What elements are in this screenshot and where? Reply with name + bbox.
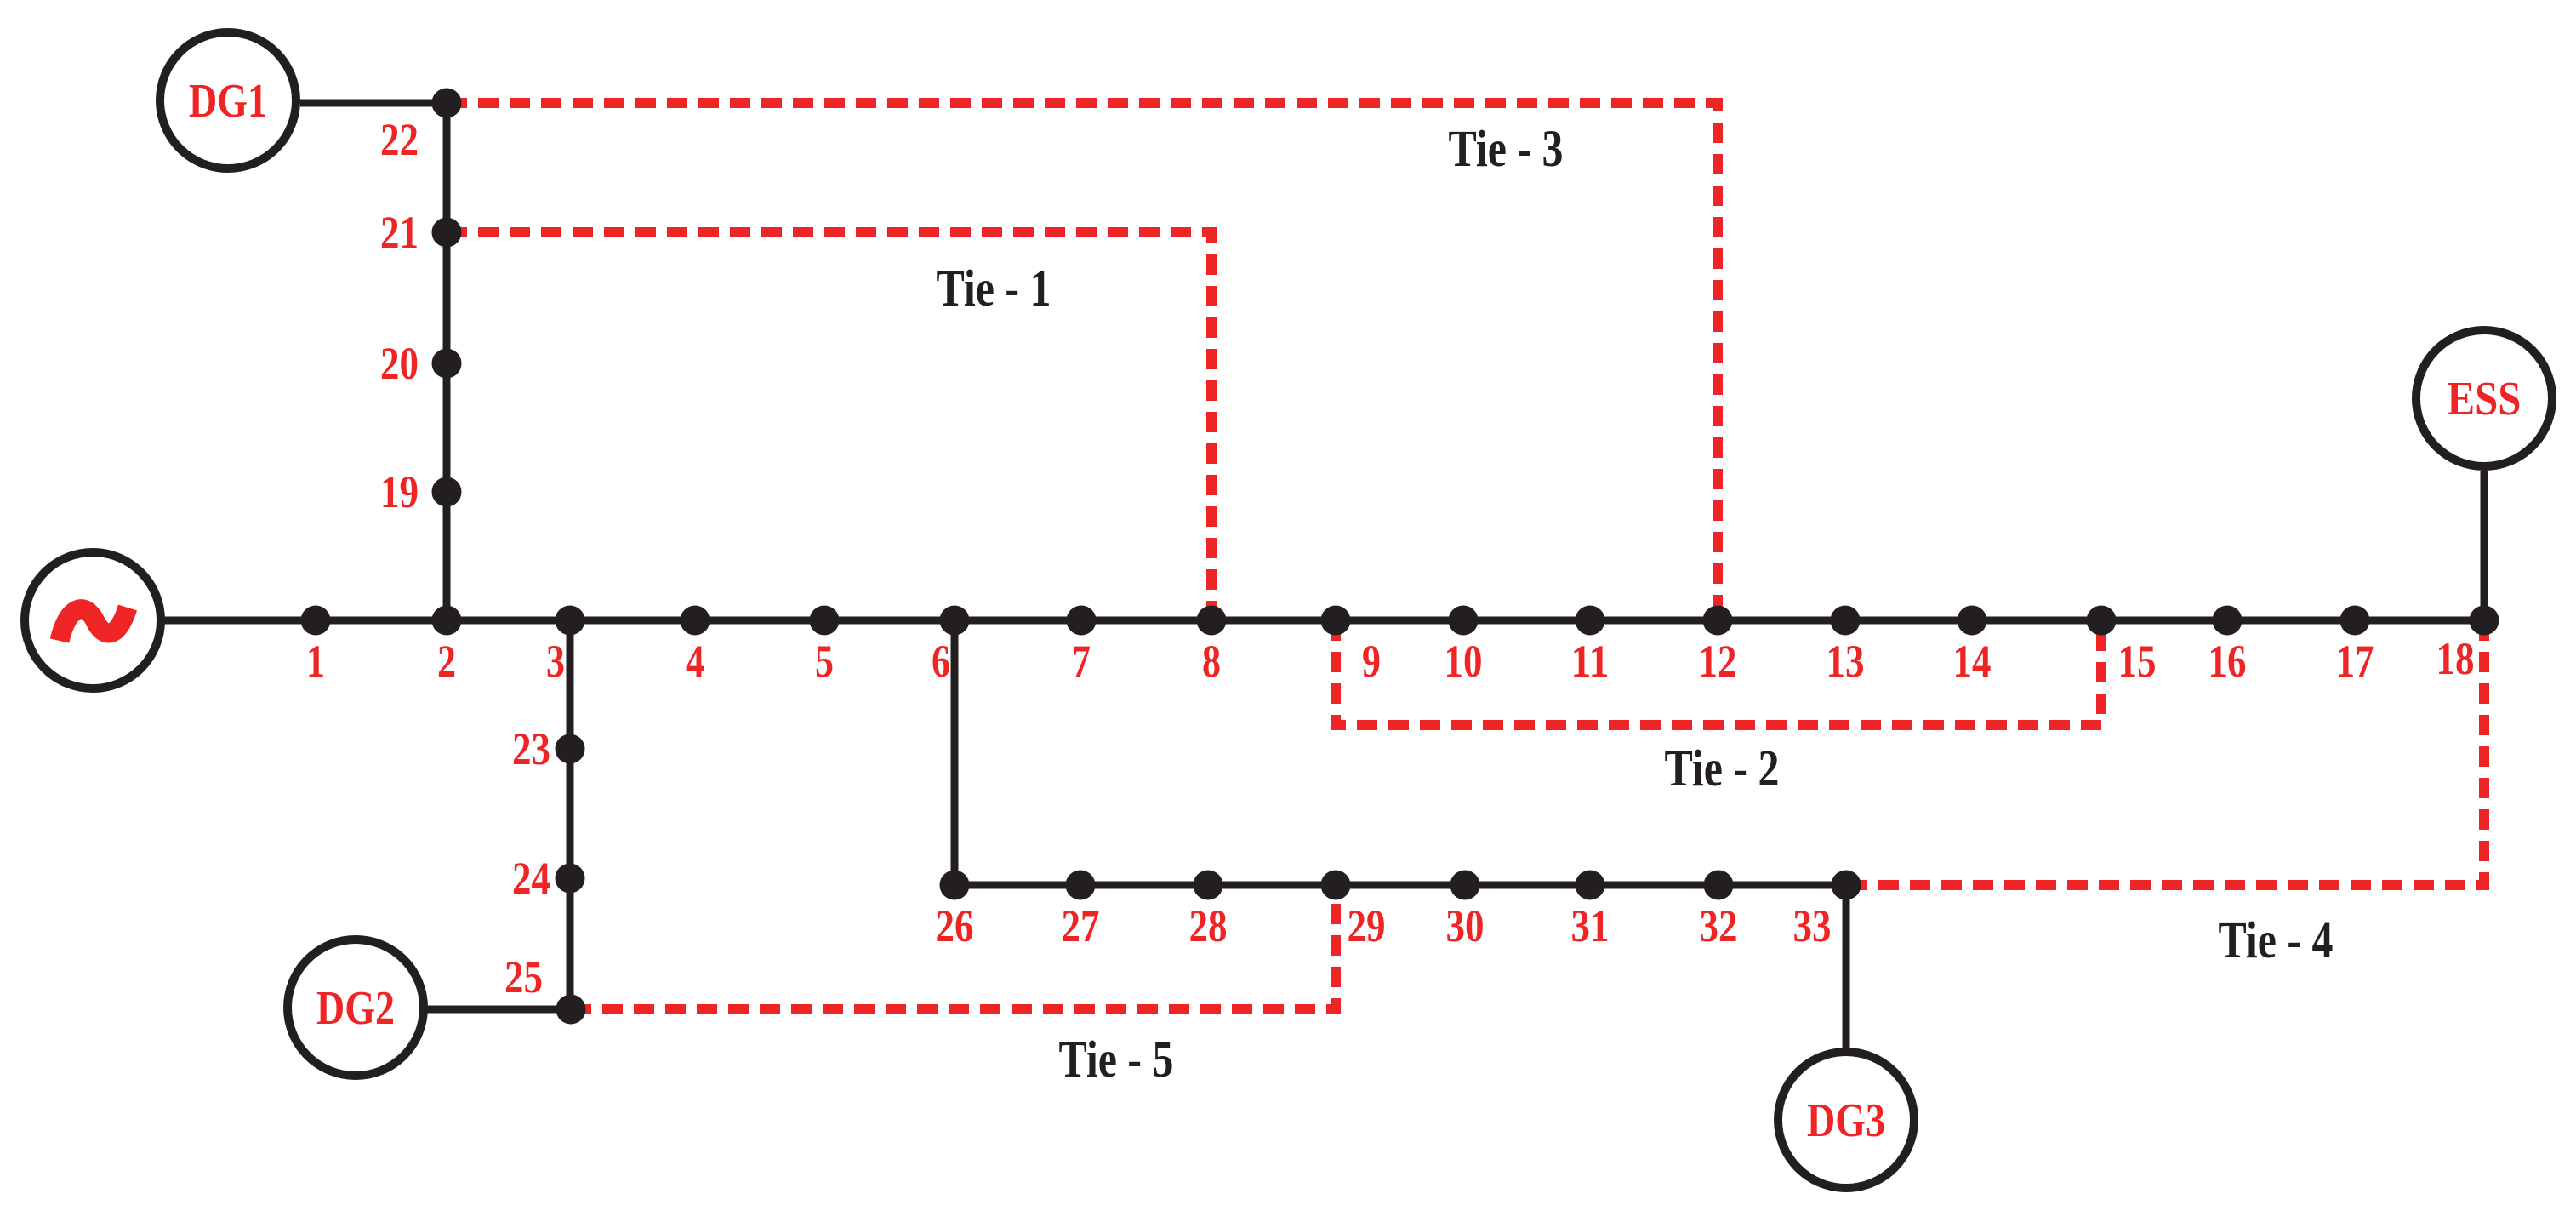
- svg-text:16: 16: [2208, 636, 2247, 687]
- svg-text:Tie - 1: Tie - 1: [937, 260, 1051, 317]
- energy storage ESS: [2416, 330, 2552, 466]
- svg-text:26: 26: [936, 900, 974, 951]
- wire lateral bus nodes 26-33: [955, 882, 1846, 889]
- svg-text:18: 18: [2436, 633, 2475, 684]
- bus node 18: [2470, 606, 2499, 636]
- bus node 8: [1197, 606, 1227, 636]
- bus node 6: [940, 606, 970, 636]
- svg-text:30: 30: [1446, 900, 1485, 951]
- bus node 27: [1066, 871, 1096, 900]
- bus node 23: [556, 734, 585, 764]
- svg-text:17: 17: [2336, 636, 2374, 687]
- tie line Tie-1 (node 21 to node 8): [447, 232, 1211, 620]
- bus node 26: [940, 871, 970, 900]
- svg-text:14: 14: [1953, 636, 1992, 687]
- svg-text:20: 20: [380, 338, 419, 389]
- svg-text:24: 24: [512, 853, 550, 904]
- bus node 5: [810, 606, 840, 636]
- wire node 33 to DG3: [1843, 885, 1850, 1048]
- wire branch node 6 to node 26: [951, 620, 959, 885]
- bus node 24: [556, 864, 585, 894]
- svg-text:Tie - 4: Tie - 4: [2219, 912, 2334, 969]
- svg-text:33: 33: [1793, 900, 1832, 951]
- tie line Tie-4 (node 18 to node 33): [1846, 620, 2484, 885]
- svg-text:11: 11: [1571, 636, 1610, 687]
- svg-text:2: 2: [437, 636, 456, 687]
- svg-text:1: 1: [306, 636, 325, 687]
- svg-text:13: 13: [1827, 636, 1865, 687]
- bus node 15: [2087, 606, 2117, 636]
- wire branch node 2 to node 22: [443, 103, 451, 620]
- tie line Tie-3 (node 22 to node 12): [447, 103, 1718, 620]
- svg-text:ESS: ESS: [2448, 373, 2522, 425]
- tie line Tie-5 (node 25 to node 29): [571, 885, 1336, 1009]
- svg-text:Tie - 5: Tie - 5: [1059, 1031, 1174, 1088]
- wire node 18 to ESS: [2481, 471, 2488, 620]
- bus node 28: [1194, 871, 1223, 900]
- svg-text:DG1: DG1: [189, 75, 267, 128]
- bus node 21: [432, 218, 462, 248]
- tie line Tie-2 (node 9 to node 15): [1336, 620, 2101, 725]
- svg-text:29: 29: [1348, 900, 1386, 951]
- svg-text:32: 32: [1700, 900, 1738, 951]
- svg-text:21: 21: [380, 207, 419, 258]
- bus node 3: [556, 606, 585, 636]
- generator DG2: [288, 939, 424, 1076]
- svg-text:8: 8: [1202, 636, 1221, 687]
- svg-text:DG2: DG2: [316, 982, 395, 1035]
- svg-text:31: 31: [1571, 900, 1610, 951]
- svg-text:Tie - 3: Tie - 3: [1449, 121, 1564, 178]
- bus node 29: [1321, 871, 1351, 900]
- bus node 20: [432, 349, 462, 379]
- bus node 14: [1958, 606, 1987, 636]
- svg-text:Tie - 2: Tie - 2: [1665, 740, 1780, 797]
- bus node 31: [1576, 871, 1605, 900]
- svg-text:DG3: DG3: [1807, 1094, 1885, 1147]
- wire branch node 3 to node 25: [567, 620, 574, 1009]
- svg-text:3: 3: [546, 636, 565, 687]
- bus node 1: [301, 606, 331, 636]
- svg-text:12: 12: [1699, 636, 1737, 687]
- svg-text:25: 25: [504, 951, 543, 1002]
- bus node 7: [1067, 606, 1097, 636]
- svg-text:27: 27: [1062, 900, 1100, 951]
- bus node 32: [1704, 871, 1734, 900]
- generator DG1: [160, 32, 296, 168]
- svg-text:4: 4: [686, 636, 704, 687]
- bus node 17: [2340, 606, 2370, 636]
- svg-text:6: 6: [932, 636, 950, 687]
- bus node 11: [1576, 606, 1605, 636]
- bus node 9: [1321, 606, 1351, 636]
- generator DG3: [1778, 1052, 1914, 1188]
- bus node 25: [556, 995, 586, 1025]
- bus node 33: [1832, 871, 1861, 900]
- svg-text:5: 5: [815, 636, 834, 687]
- bus node 19: [432, 477, 462, 507]
- svg-text:22: 22: [380, 114, 419, 165]
- bus node 10: [1449, 606, 1479, 636]
- svg-text:7: 7: [1072, 636, 1091, 687]
- wire DG1 to node 22: [300, 100, 447, 107]
- svg-text:15: 15: [2118, 636, 2157, 687]
- svg-text:19: 19: [380, 466, 419, 517]
- svg-text:9: 9: [1362, 636, 1381, 687]
- svg-text:10: 10: [1445, 636, 1483, 687]
- svg-text:28: 28: [1189, 900, 1228, 951]
- bus node 12: [1703, 606, 1733, 636]
- wire DG2 to node 25: [427, 1006, 571, 1014]
- bus node 13: [1831, 606, 1861, 636]
- source generator (grid substation): [25, 552, 161, 688]
- wire main feeder bus nodes 1-18: [164, 617, 2484, 625]
- bus node 2: [432, 606, 462, 636]
- bus node 16: [2213, 606, 2243, 636]
- bus node 4: [681, 606, 710, 636]
- bus node 22: [432, 89, 462, 118]
- bus node 30: [1450, 871, 1480, 900]
- svg-text:23: 23: [512, 723, 550, 774]
